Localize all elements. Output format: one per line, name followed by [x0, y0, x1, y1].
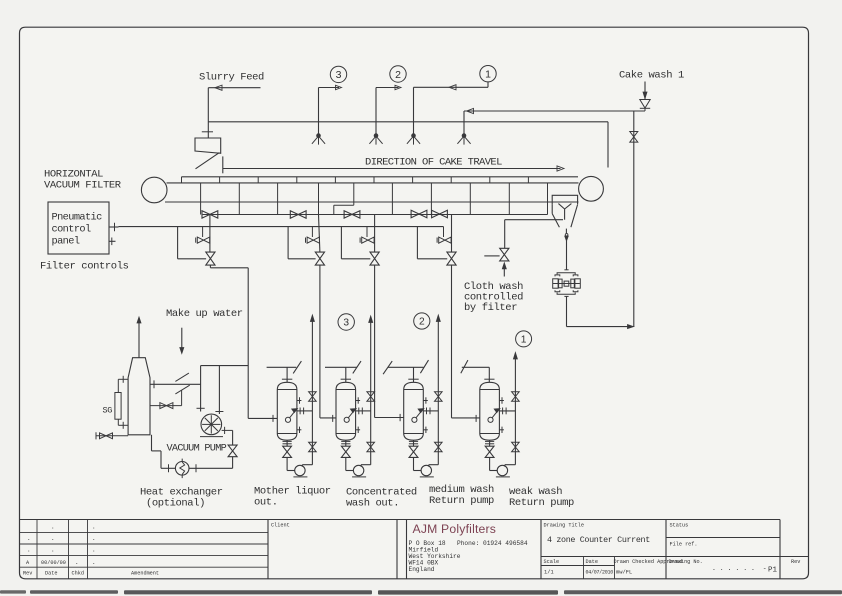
slurry feed drop pipe: [207, 88, 209, 138]
drain valve: [100, 433, 113, 439]
spray nozzle 2: [369, 134, 382, 145]
suction riser: [197, 366, 205, 412]
leg4 pilot valve: [437, 237, 451, 243]
discharge valve: [228, 445, 237, 457]
svg-text:. . . . . . -: . . . . . . -: [712, 565, 767, 572]
zone1 feed stub: [487, 82, 489, 87]
zone3 drop pipe: [318, 88, 320, 135]
svg-text:Rev: Rev: [791, 559, 800, 565]
leg4 bypass: [417, 227, 447, 259]
svg-text:Phone: 01924 496584: Phone: 01924 496584: [457, 540, 528, 547]
vessel V3 internals: [412, 409, 424, 423]
belt mid line: [165, 201, 579, 203]
leg2 pipe lower: [319, 265, 321, 418]
make up water label: [166, 308, 243, 320]
cake wash drop pipe: [463, 111, 465, 134]
cloth wash arrow: [502, 263, 506, 277]
vessel V1 vent line: [267, 361, 302, 373]
svg-text:wash out.: wash out.: [346, 498, 399, 510]
leg2 pilot valve: [306, 237, 320, 243]
circled 1 top: [480, 66, 496, 82]
svg-text:.: .: [92, 547, 96, 554]
svg-text:by filter: by filter: [464, 302, 517, 314]
pump P3: [420, 465, 434, 477]
circled 3 bottom: [338, 314, 354, 330]
vessel V3 right nozzles: [423, 397, 438, 433]
hopper chute blade: [196, 153, 220, 169]
svg-text:Scale: Scale: [544, 559, 560, 565]
AJM company box: [407, 520, 542, 579]
sight glass loop: [117, 379, 119, 425]
pump P2: [352, 465, 366, 477]
cake strip top: [182, 176, 579, 178]
chute outlet: [565, 229, 569, 270]
svg-text:.: .: [51, 535, 55, 542]
svg-text:.: .: [27, 547, 31, 554]
belt divider jog: [334, 183, 354, 215]
svg-text:(optional): (optional): [146, 498, 205, 510]
vessel V4: [480, 382, 500, 440]
svg-text:.: .: [75, 559, 79, 566]
leg4 pipe lower: [451, 265, 453, 418]
riser R4: [505, 353, 519, 467]
circled 2 bottom: [414, 313, 430, 329]
svg-text:1: 1: [521, 335, 527, 346]
medium wash label: [429, 484, 494, 507]
zone2 feed line: [376, 85, 401, 89]
suction break slash: [175, 385, 189, 394]
svg-text:4 zone Counter Current: 4 zone Counter Current: [547, 535, 650, 545]
svg-text:File ref.: File ref.: [670, 542, 698, 548]
svg-text:00/00/00: 00/00/00: [41, 560, 66, 566]
belt top line: [167, 182, 579, 184]
svg-text:1: 1: [485, 68, 491, 80]
vessel V3: [404, 382, 424, 440]
makeup branch: [150, 390, 182, 406]
riser R2: [361, 316, 375, 467]
vessel V1 bottom valves: [283, 440, 295, 470]
SG label: [103, 406, 113, 416]
svg-text:DIRECTION OF CAKE TRAVEL: DIRECTION OF CAKE TRAVEL: [365, 157, 502, 169]
vacuum main: [201, 365, 249, 367]
vessel V1 inlet: [248, 415, 277, 422]
leg1 pilot stub: [202, 227, 204, 237]
leg3 bypass: [341, 227, 370, 259]
pump inlet drop: [215, 366, 223, 414]
svg-text:Chkd: Chkd: [72, 571, 84, 577]
makeup branch valve: [160, 403, 173, 409]
leg4 control valve: [447, 252, 456, 265]
belt valve B1: [202, 211, 218, 218]
revision table grid: [20, 520, 781, 579]
svg-text:.: .: [51, 524, 55, 531]
panel stub lower: [109, 238, 116, 246]
pneumatic panel box: [48, 202, 109, 254]
svg-text:Return pump: Return pump: [429, 495, 494, 507]
svg-text:panel: panel: [52, 236, 80, 248]
leg1 bypass: [178, 227, 207, 259]
svg-text:.: .: [92, 535, 96, 542]
right roller: [579, 176, 604, 201]
slurry feed line: [208, 85, 260, 90]
svg-text:control: control: [52, 224, 91, 236]
chute spray: [558, 204, 571, 220]
slurry feed label: [199, 72, 264, 84]
cloth wash sense line: [484, 255, 499, 257]
vessel V1 internals: [285, 409, 297, 423]
vessel V2 bottom valves: [341, 440, 353, 470]
svg-text:04/07/2010: 04/07/2010: [586, 570, 614, 576]
vessel V3 inlet tick: [375, 414, 404, 421]
vacuum pump: [200, 414, 223, 437]
cloth wash unit: [553, 270, 581, 297]
svg-text:Filter controls: Filter controls: [40, 261, 129, 273]
svg-text:Pneumatic: Pneumatic: [52, 212, 103, 224]
wash unit outlet: [567, 296, 634, 328]
vessel V2 inlet tick: [320, 415, 336, 422]
chute bracket: [552, 195, 577, 204]
drum vent pipe: [137, 317, 141, 358]
cloth wash pipe: [504, 220, 506, 248]
vessel V2 vent line: [325, 361, 361, 373]
svg-text:Make up water: Make up water: [166, 308, 243, 320]
circled 3 top: [330, 66, 346, 82]
zone2 drop pipe: [375, 88, 377, 135]
heat exchanger: [175, 459, 189, 479]
cake wash drop: [643, 82, 647, 100]
vacuum pump label: [167, 444, 227, 455]
svg-text:mw/FL: mw/FL: [616, 570, 632, 576]
vessel V3 top nozzle: [408, 367, 418, 382]
belt cell dividers: [201, 183, 548, 215]
control header: [119, 226, 444, 228]
svg-text:VACUUM FILTER: VACUUM FILTER: [44, 180, 122, 192]
svg-text:Amendment: Amendment: [131, 571, 159, 577]
panel label: [52, 212, 103, 248]
vessel V3 vent line: [383, 360, 428, 374]
leg1 control valve: [206, 252, 215, 265]
panel stub upper: [109, 223, 119, 231]
client box: [271, 520, 397, 579]
drum left upper stub: [118, 376, 128, 383]
leg3 pipe upper: [374, 215, 376, 253]
sight glass: [115, 393, 121, 420]
svg-text:Client: Client: [271, 523, 290, 529]
feed hopper: [195, 138, 221, 153]
vessel V4 vent line: [461, 360, 495, 382]
hx line right: [189, 464, 233, 472]
branch check valve: [630, 132, 638, 143]
drum left lower stub: [118, 422, 128, 429]
zone3 feed line: [319, 85, 342, 89]
svg-text:VACUUM PUMP: VACUUM PUMP: [167, 444, 227, 455]
riser R1: [302, 315, 316, 467]
cake strip ticks: [182, 177, 529, 183]
vessel V4 internals: [488, 409, 500, 423]
mother liquor label: [254, 486, 331, 509]
cloth wash tap line: [505, 219, 563, 221]
chute funnel left: [552, 204, 559, 227]
svg-text:Rev: Rev: [23, 571, 32, 577]
leg3 control valve: [370, 252, 379, 265]
leg3 pipe lower: [374, 265, 376, 418]
spray nozzle cw: [457, 134, 470, 145]
pump discharge: [222, 427, 233, 445]
leg2 pipe upper: [319, 215, 320, 253]
suction line: [150, 380, 201, 388]
spray nozzle 1: [407, 134, 420, 145]
weak wash label: [509, 486, 574, 509]
hx label: [140, 487, 223, 510]
leg3 pilot valve: [360, 237, 374, 243]
svg-text:Slurry Feed: Slurry Feed: [199, 72, 264, 84]
leg1 pipe lower: [210, 265, 248, 419]
filter controls label: [40, 261, 129, 273]
discharge drop: [232, 457, 234, 469]
leg1 pipe upper: [209, 214, 211, 252]
vessel V2 right nozzles: [356, 397, 371, 433]
pump P4: [496, 465, 510, 477]
vessel V2 top nozzle: [341, 367, 351, 382]
svg-text:.: .: [51, 547, 55, 554]
leg3 pilot stub: [366, 227, 368, 237]
svg-text:England: England: [409, 566, 435, 573]
main spray header: [208, 121, 608, 123]
leg2 pilot stub: [311, 227, 313, 237]
svg-text:1/1: 1/1: [544, 570, 554, 576]
revision table text: [23, 524, 159, 577]
left roller: [141, 177, 167, 203]
circled 1 bottom: [516, 331, 532, 347]
header right drop: [607, 122, 609, 168]
svg-text:.: .: [92, 559, 96, 566]
direction label: [365, 157, 502, 169]
vessel V1 right nozzles: [297, 397, 313, 433]
vessel V2: [336, 382, 356, 440]
svg-text:3: 3: [336, 69, 342, 81]
knockout drum: [128, 358, 150, 435]
drawing title box: [541, 520, 682, 579]
belt valve B4: [411, 210, 427, 217]
zone1 feed line: [414, 85, 489, 90]
filter label: [44, 169, 122, 192]
make up water pipe: [180, 328, 184, 354]
cake wash line: [464, 108, 645, 113]
svg-text:Drawing Title: Drawing Title: [544, 523, 584, 529]
circled 2 top: [390, 66, 406, 82]
svg-text:P1: P1: [768, 567, 778, 575]
leg2 control valve: [315, 252, 324, 265]
concentrated label: [346, 487, 417, 510]
leg2 bypass: [288, 227, 316, 259]
belt valve B2: [290, 211, 306, 218]
vessel V2 internals: [344, 409, 356, 423]
leg4 pipe upper: [451, 215, 453, 253]
svg-text:Cake wash 1: Cake wash 1: [619, 70, 684, 82]
svg-text:AJM Polyfilters: AJM Polyfilters: [413, 522, 497, 536]
cloth wash label: [464, 281, 523, 314]
makeup break slash: [175, 373, 189, 381]
cake wash branch pipe: [633, 111, 635, 327]
belt bottom header: [203, 214, 548, 216]
vessel V3 bottom valves: [409, 440, 421, 470]
svg-text:2: 2: [395, 69, 401, 81]
belt valve B5: [432, 210, 448, 217]
belt valve B3: [344, 211, 360, 218]
leg1 pilot valve: [196, 237, 210, 243]
slurry flange: [202, 131, 213, 133]
belt divider leg2: [318, 183, 320, 215]
cloth wash valve: [500, 248, 509, 261]
cake wash 1 label: [619, 70, 684, 82]
svg-text:Return pump: Return pump: [509, 497, 574, 509]
hx line left: [161, 464, 176, 472]
drum drain line: [96, 432, 129, 439]
leg4 pilot stub: [443, 227, 445, 237]
cake wash valve: [640, 100, 650, 112]
svg-text:.: .: [92, 524, 96, 531]
drum return: [152, 435, 162, 469]
zone1 drop pipe: [413, 87, 415, 134]
scan edge band: [0, 590, 842, 594]
riser R3: [429, 315, 442, 467]
chute funnel right: [571, 205, 578, 228]
svg-text:out.: out.: [254, 497, 278, 509]
svg-text:Date: Date: [586, 559, 598, 565]
vessel V4 inlet tick: [452, 415, 480, 422]
svg-text:.: .: [27, 535, 31, 542]
vessel V1 top nozzle: [282, 367, 292, 382]
vessel V1: [277, 382, 297, 440]
pump P1: [293, 465, 307, 477]
svg-text:3: 3: [343, 318, 349, 329]
svg-text:Status: Status: [670, 523, 689, 529]
direction arrow line: [223, 156, 564, 173]
vessel V4 bottom valves: [485, 440, 497, 470]
spray nozzle 3: [312, 134, 325, 145]
status box: [666, 523, 809, 575]
svg-text:Date: Date: [45, 571, 57, 577]
vessel V4 right nozzles: [499, 397, 515, 433]
svg-text:Drawing No.: Drawing No.: [669, 559, 703, 565]
svg-text:SG: SG: [103, 406, 113, 416]
svg-text:2: 2: [419, 317, 425, 328]
